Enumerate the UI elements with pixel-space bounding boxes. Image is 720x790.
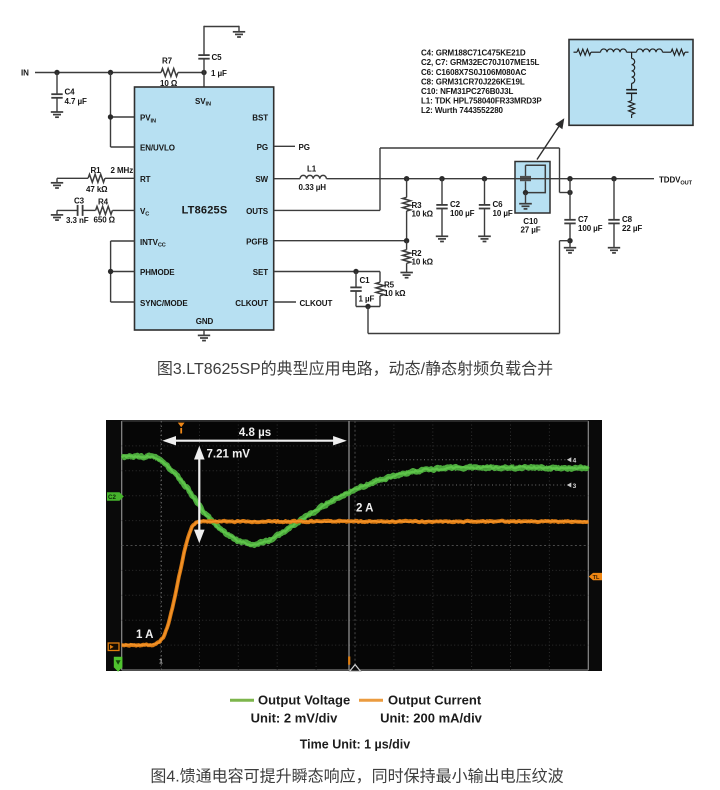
svg-text:Unit: 200 mA/div: Unit: 200 mA/div xyxy=(380,711,483,726)
wire xyxy=(627,51,637,53)
svg-text:10 kΩ: 10 kΩ xyxy=(412,210,434,219)
svg-text:7.21 mV: 7.21 mV xyxy=(207,449,251,461)
svg-text:CLKOUT: CLKOUT xyxy=(300,299,333,308)
svg-text:650 Ω: 650 Ω xyxy=(94,216,116,225)
wire output rail xyxy=(326,178,654,180)
svg-text:10 µF: 10 µF xyxy=(493,209,513,218)
node junction R3/R2 xyxy=(404,238,409,243)
svg-text:图4.馈通电容可提升瞬态响应，同时保持最小输出电压纹波: 图4.馈通电容可提升瞬态响应，同时保持最小输出电压纹波 xyxy=(150,767,563,786)
ground RT xyxy=(56,178,58,182)
svg-text:1 µF: 1 µF xyxy=(359,295,375,304)
node junction C4 xyxy=(54,70,59,75)
svg-text:OUTS: OUTS xyxy=(246,207,269,216)
svg-text:LT8625S: LT8625S xyxy=(182,205,228,217)
svg-text:C2: C2 xyxy=(108,494,116,501)
svg-text:2 A: 2 A xyxy=(356,503,373,515)
resistor inset ESR right xyxy=(671,49,685,55)
wire SW to L1 xyxy=(274,178,300,180)
wire xyxy=(631,114,633,118)
svg-text:0.33 µH: 0.33 µH xyxy=(299,183,327,192)
svg-text:TL: TL xyxy=(593,575,600,581)
resistor R5 xyxy=(379,272,381,283)
resistor R7 xyxy=(161,69,178,77)
scope grid xyxy=(122,421,589,670)
svg-text:BST: BST xyxy=(252,114,268,123)
svg-text:L2: Wurth 7443552280: L2: Wurth 7443552280 xyxy=(421,106,504,115)
wire xyxy=(663,51,672,53)
marker reference 3 xyxy=(567,483,572,488)
op-amp U1 LT8625S regulator IC body xyxy=(135,87,274,330)
capacitor C10 highlight box xyxy=(515,162,550,214)
svg-text:10 kΩ: 10 kΩ xyxy=(384,289,406,298)
wire PG stub xyxy=(274,145,295,147)
node junction C7 bottom kelvin xyxy=(567,238,572,243)
wire SET xyxy=(274,271,380,273)
scope cursor line left dotted xyxy=(160,421,162,670)
scope background xyxy=(106,420,602,671)
svg-text:R4: R4 xyxy=(98,198,109,207)
node junction PVIN xyxy=(108,114,113,119)
wire INTVCC/PHMODE/SYNC tie xyxy=(110,241,112,302)
svg-text:C8: C8 xyxy=(622,215,633,224)
wire PVIN/EN branch xyxy=(110,73,112,148)
svg-text:4.8 µs: 4.8 µs xyxy=(239,427,271,439)
marker channel C2 green left xyxy=(107,492,124,501)
svg-text:GND: GND xyxy=(196,317,214,326)
scope reference dotted line ch4 xyxy=(388,459,566,461)
svg-text:PGFB: PGFB xyxy=(246,237,268,246)
resistor inset shunt ESR xyxy=(629,101,635,115)
marker TL trigger level right xyxy=(589,573,602,580)
wire rail through C10 box xyxy=(515,178,550,180)
svg-text:Unit: 2 mV/div: Unit: 2 mV/div xyxy=(251,711,338,726)
capacitor C7 xyxy=(569,179,571,220)
label component list xyxy=(421,49,542,116)
scope trace output voltage green xyxy=(122,455,589,545)
ground R2 xyxy=(400,272,413,274)
wire PGFB xyxy=(274,240,407,242)
ground C6 xyxy=(478,235,491,237)
node junction PVIN branch xyxy=(108,70,113,75)
wire C10 to ground xyxy=(525,193,527,204)
node junction C8 rail xyxy=(611,176,616,181)
svg-text:C7: C7 xyxy=(578,215,589,224)
svg-text:PHMODE: PHMODE xyxy=(140,268,175,277)
svg-text:1: 1 xyxy=(159,659,163,666)
wire SET kelvin return loop xyxy=(367,307,369,334)
capacitor C2 xyxy=(441,179,443,205)
resistor R2 xyxy=(406,241,408,250)
svg-text:L1: TDK HPL758040FR33MRD3P: L1: TDK HPL758040FR33MRD3P xyxy=(421,97,542,106)
wire RT xyxy=(57,177,88,179)
svg-text:C4: C4 xyxy=(65,88,76,97)
inductor inset L right xyxy=(637,49,663,52)
inductor L1 xyxy=(300,175,326,178)
label 7.21 mV with arrow xyxy=(198,451,200,533)
marker trigger T top xyxy=(178,423,185,428)
scope trace output current orange xyxy=(122,521,589,646)
capacitor C10 loop xyxy=(526,165,546,192)
svg-text:RT: RT xyxy=(140,175,151,184)
svg-text:C2: C2 xyxy=(450,200,461,209)
svg-text:Time Unit: 1 µs/div: Time Unit: 1 µs/div xyxy=(300,737,411,751)
wire xyxy=(685,51,689,53)
capacitor C5 xyxy=(203,59,205,72)
svg-text:1 µF: 1 µF xyxy=(211,69,227,78)
wire VC xyxy=(57,209,77,211)
svg-text:4.7 µF: 4.7 µF xyxy=(65,97,87,106)
scope reference dotted line ch3 xyxy=(366,484,566,486)
resistor inset ESR left xyxy=(577,49,591,55)
ground C2 xyxy=(436,235,448,237)
svg-text:10 kΩ: 10 kΩ xyxy=(412,257,434,266)
svg-text:C3: C3 xyxy=(74,197,85,206)
wire xyxy=(631,94,633,101)
svg-text:R7: R7 xyxy=(162,57,173,66)
inductor inset shunt ESL xyxy=(632,59,635,84)
svg-text:Output Current: Output Current xyxy=(388,693,482,708)
node junction C6 rail xyxy=(482,176,487,181)
wire C5 to ground xyxy=(204,26,239,28)
wire GND stub xyxy=(203,330,205,335)
svg-text:Output Voltage: Output Voltage xyxy=(258,693,350,708)
svg-text:C4: GRM188C71C475KE21D: C4: GRM188C71C475KE21D xyxy=(421,49,526,58)
svg-text:22 µF: 22 µF xyxy=(622,224,642,233)
arrow C10 to inset xyxy=(537,126,560,160)
marker green ground bottom left xyxy=(114,657,123,672)
wire SVIN stub xyxy=(203,73,205,88)
resistor R3 xyxy=(406,179,408,198)
svg-text:IN: IN xyxy=(21,69,29,78)
ground C10 xyxy=(519,203,532,205)
svg-text:SYNC/MODE: SYNC/MODE xyxy=(140,299,188,308)
wire C1/R5 bottom xyxy=(356,306,380,308)
svg-text:PG: PG xyxy=(299,143,310,152)
ground C4 xyxy=(51,111,63,113)
ground C8 xyxy=(608,247,620,249)
node junction SVIN/C5 xyxy=(201,70,206,75)
svg-text:4: 4 xyxy=(573,458,577,465)
node junction C7 rail xyxy=(567,176,572,181)
svg-text:47 kΩ: 47 kΩ xyxy=(86,185,108,194)
wire IN rail xyxy=(35,72,161,74)
svg-text:3: 3 xyxy=(573,483,577,490)
wire inset shunt stub xyxy=(631,52,633,58)
marker orange channel left xyxy=(108,643,119,651)
wire xyxy=(631,83,633,89)
svg-text:2 MHz: 2 MHz xyxy=(111,166,134,175)
capacitor C3 xyxy=(77,205,79,216)
svg-text:R1: R1 xyxy=(91,166,102,175)
ground VC xyxy=(56,210,58,214)
svg-text:CLKOUT: CLKOUT xyxy=(235,299,268,308)
node junction SET return xyxy=(365,304,370,309)
capacitor C6 xyxy=(484,179,486,205)
diagram C10 equivalent model inset box xyxy=(569,40,693,126)
node junction R3 rail xyxy=(404,176,409,181)
svg-text:EN/UVLO: EN/UVLO xyxy=(140,144,175,153)
svg-text:C2, C7: GRM32EC70J107ME15L: C2, C7: GRM32EC70J107ME15L xyxy=(421,58,540,67)
legend output voltage swatch xyxy=(230,699,254,702)
svg-text:3.3 nF: 3.3 nF xyxy=(66,216,89,225)
node junction C2 rail xyxy=(439,176,444,181)
wire OUTS feedthrough xyxy=(274,209,380,211)
ground C7 xyxy=(564,247,576,249)
svg-text:100 µF: 100 µF xyxy=(450,209,475,218)
capacitor C1 xyxy=(355,272,357,288)
capacitor C4 xyxy=(56,73,58,94)
marker trigger slope bottom center xyxy=(348,657,350,665)
node junction PHMODE xyxy=(108,269,113,274)
svg-text:1 A: 1 A xyxy=(136,629,153,641)
scope cursor line right solid xyxy=(348,421,350,670)
svg-text:C10: NFM31PC276B0J3L: C10: NFM31PC276B0J3L xyxy=(421,87,513,96)
wire xyxy=(591,51,601,53)
svg-text:C6: C6 xyxy=(493,200,504,209)
svg-text:C1: C1 xyxy=(360,276,371,285)
svg-text:27 µF: 27 µF xyxy=(520,226,540,235)
chart oscilloscope screenshot xyxy=(106,420,602,672)
ground C5 xyxy=(233,31,245,33)
inductor inset L left xyxy=(601,49,627,52)
resistor R4 xyxy=(96,206,113,214)
marker reference 4 xyxy=(567,457,572,462)
label 4.8 us with arrow xyxy=(167,440,342,442)
ground IC xyxy=(198,334,210,336)
svg-text:SW: SW xyxy=(255,175,268,184)
wire inset series chain xyxy=(574,51,578,53)
svg-text:100 µF: 100 µF xyxy=(578,224,603,233)
capacitor C10 body plates xyxy=(520,176,531,178)
node junction C10 xyxy=(523,190,528,195)
svg-text:C6: C1608X7S0J106M080AC: C6: C1608X7S0J106M080AC xyxy=(421,68,527,77)
legend output current swatch xyxy=(359,699,383,702)
capacitor C8 xyxy=(613,179,615,220)
wire CLKOUT stub xyxy=(274,301,296,303)
capacitor inset C xyxy=(626,89,637,91)
resistor R1 xyxy=(88,174,105,182)
svg-text:图3.LT8625SP的典型应用电路，动态/静态射频负载合并: 图3.LT8625SP的典型应用电路，动态/静态射频负载合并 xyxy=(157,359,553,378)
node junction C7 top sense xyxy=(567,190,572,195)
svg-text:L1: L1 xyxy=(307,165,317,174)
svg-text:SET: SET xyxy=(253,268,268,277)
node junction C1 top xyxy=(353,269,358,274)
svg-text:C5: C5 xyxy=(212,53,223,62)
svg-text:C8: GRM31CR70J226KE19L: C8: GRM31CR70J226KE19L xyxy=(421,77,525,86)
svg-text:PG: PG xyxy=(257,143,268,152)
marker trigger position triangle bottom xyxy=(350,665,361,672)
